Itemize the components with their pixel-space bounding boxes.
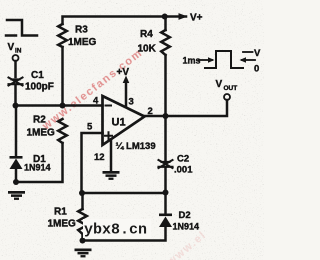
wire D1 column <box>15 106 18 157</box>
svg-text:ybx8.cn: ybx8.cn <box>84 222 147 239</box>
resistor R4 <box>161 30 170 55</box>
Vout terminal <box>224 94 230 100</box>
ground (pin 12) <box>103 171 120 174</box>
wire R3 bottom to node A rail <box>61 47 64 106</box>
ground (D1) <box>8 191 25 194</box>
wire C2 bottom to D2 top <box>164 168 167 213</box>
svg-text:U1: U1 <box>112 117 126 129</box>
svg-text:100pF: 100pF <box>25 82 54 93</box>
svg-text:+V: +V <box>117 67 130 78</box>
wire output pin2 to Vout <box>145 100 228 116</box>
node D1 ground junction <box>13 179 19 185</box>
capacitor C1 <box>9 78 23 86</box>
svg-text:R1: R1 <box>54 207 67 218</box>
op-amp U1 <box>103 96 145 145</box>
svg-text:1MEG: 1MEG <box>27 128 56 139</box>
label Vout <box>216 79 238 92</box>
+V arrowhead <box>123 76 130 84</box>
svg-text:0: 0 <box>254 64 259 75</box>
svg-text:3: 3 <box>129 97 134 108</box>
svg-text:1MEG: 1MEG <box>68 37 97 48</box>
svg-text:D2: D2 <box>179 210 191 221</box>
wire R4 top <box>164 17 167 31</box>
node V+ junction <box>162 14 168 20</box>
svg-text:1N914: 1N914 <box>173 222 200 232</box>
svg-text:V: V <box>216 79 223 90</box>
wire pin 12 to ground <box>110 140 113 172</box>
resistor R1 <box>78 209 87 234</box>
node C2-D2 junction <box>163 190 169 196</box>
svg-text:IN: IN <box>15 48 22 55</box>
svg-text:V: V <box>254 48 261 59</box>
wire R1 top <box>81 193 84 209</box>
capacitor C2 <box>159 160 173 168</box>
svg-text:4: 4 <box>93 96 99 107</box>
svg-text:12: 12 <box>94 152 105 163</box>
svg-text:.001: .001 <box>174 165 193 176</box>
supply arrow +V to pin 3 <box>125 80 128 107</box>
svg-text:¼ LM139: ¼ LM139 <box>116 141 156 152</box>
node A junction <box>13 103 19 109</box>
svg-text:R2: R2 <box>33 115 46 126</box>
wire output node down to C2 <box>164 116 167 160</box>
node output junction <box>163 113 169 119</box>
minus sign pin4 <box>106 105 112 107</box>
svg-text:R3: R3 <box>75 25 88 36</box>
input step waveform glyph <box>6 20 37 36</box>
1ms arrowhead <box>208 57 215 63</box>
svg-text:OUT: OUT <box>224 85 238 92</box>
wire node A horizontal to pin 4 <box>16 104 103 107</box>
svg-text:2: 2 <box>148 106 153 117</box>
node R2-top junction <box>60 103 66 109</box>
label Vin <box>8 42 22 55</box>
svg-text:5: 5 <box>87 122 93 133</box>
wire ground node right to R2 bottom <box>16 143 63 182</box>
watermark www.elecfans.com diagonal <box>40 47 146 133</box>
resistor R3 <box>58 24 67 47</box>
diode D1 <box>10 159 23 170</box>
watermark fragment bottom-right <box>164 229 209 260</box>
wire D2 bottom to bottom rail <box>83 227 166 241</box>
svg-text:10K: 10K <box>138 44 157 55</box>
svg-text:1N914: 1N914 <box>24 163 51 173</box>
diode D2 <box>159 217 172 228</box>
plus sign pin5 <box>105 132 112 139</box>
level V dash <box>243 51 253 53</box>
wire Vin terminal to C1 <box>14 61 17 77</box>
svg-text:V+: V+ <box>190 13 203 24</box>
wire R4 bottom to output node <box>164 55 167 116</box>
ybx8.cn watermark box <box>83 219 151 239</box>
wire feedback rail <box>82 192 166 195</box>
svg-text:C2: C2 <box>177 154 189 165</box>
arrow left at falling edge <box>242 59 255 61</box>
left arrowhead <box>240 57 247 63</box>
output waveform glyph <box>205 51 243 68</box>
svg-text:V: V <box>8 42 15 53</box>
wire pin 5 to feedback node <box>82 133 103 193</box>
Vin terminal <box>13 55 19 61</box>
wire R3 top to V+ rail <box>63 17 187 25</box>
svg-text:1MEG: 1MEG <box>48 219 77 230</box>
svg-text:1ms: 1ms <box>183 56 201 66</box>
wire R1 bottom <box>81 234 84 241</box>
node feedback junction <box>79 190 85 196</box>
svg-text:R4: R4 <box>140 29 153 40</box>
1ms arrow right <box>199 59 212 61</box>
node R1 bottom junction <box>80 238 86 244</box>
wire D1 to ground node <box>15 169 18 182</box>
ground (R1) <box>75 249 92 252</box>
svg-text:C1: C1 <box>31 70 44 81</box>
resistor R2 <box>58 119 67 143</box>
V+ rail arrowhead <box>179 14 186 19</box>
wire C1 to node A <box>14 86 17 106</box>
